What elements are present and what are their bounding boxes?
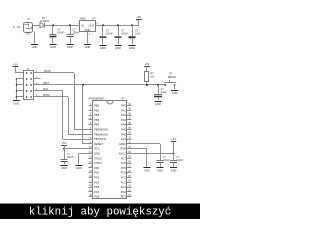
svg-text:PB1: PB1 — [94, 108, 100, 112]
svg-text:PD5: PD5 — [94, 190, 100, 194]
svg-text:1N4001: 1N4001 — [40, 19, 50, 23]
svg-text:GND: GND — [100, 46, 106, 50]
svg-text:PB0: PB0 — [94, 104, 100, 108]
svg-text:GND: GND — [76, 166, 82, 170]
svg-text:PB7(SCK): PB7(SCK) — [94, 137, 107, 141]
svg-text:PA3: PA3 — [121, 118, 126, 122]
svg-text:+5V: +5V — [136, 15, 141, 19]
svg-text:GND: GND — [32, 45, 38, 49]
svg-text:PB4: PB4 — [94, 123, 100, 127]
svg-text:GND: GND — [144, 168, 150, 172]
svg-text:PD1: PD1 — [94, 171, 100, 175]
svg-text:IN: IN — [81, 23, 84, 27]
svg-text:PB2: PB2 — [94, 113, 100, 117]
svg-text:PA4: PA4 — [121, 123, 126, 127]
svg-text:PC4: PC4 — [121, 171, 127, 175]
svg-text:XTAL2: XTAL2 — [94, 156, 103, 160]
svg-text:PA6: PA6 — [121, 132, 126, 136]
svg-text:100nF: 100nF — [121, 32, 128, 35]
svg-text:kliknij aby powiększyć: kliknij aby powiększyć — [29, 207, 172, 219]
svg-text:PB6(MISO): PB6(MISO) — [94, 132, 108, 136]
svg-text:DC: DC — [27, 32, 31, 36]
svg-text:GND: GND — [85, 45, 91, 49]
svg-text:GND: GND — [85, 28, 91, 32]
svg-text:+5V: +5V — [62, 141, 67, 145]
svg-text:GND: GND — [172, 91, 178, 95]
svg-text:10uF: 10uF — [135, 32, 141, 35]
svg-text:PC2: PC2 — [121, 180, 127, 184]
svg-text:100nF: 100nF — [163, 159, 170, 162]
svg-text:PD3: PD3 — [94, 180, 100, 184]
svg-text:PD6: PD6 — [94, 195, 100, 199]
svg-text:PC1: PC1 — [121, 185, 127, 189]
svg-text:PB5(MOSI): PB5(MOSI) — [94, 128, 108, 132]
svg-text:PC6: PC6 — [121, 161, 127, 165]
svg-text:100nF: 100nF — [176, 159, 183, 162]
svg-text:6 - 9V: 6 - 9V — [14, 25, 21, 29]
svg-text:100nF: 100nF — [67, 156, 74, 159]
svg-text:GND: GND — [14, 102, 20, 106]
svg-text:GND: GND — [171, 168, 177, 172]
svg-text:PA0: PA0 — [121, 104, 126, 108]
svg-text:GND: GND — [50, 45, 56, 49]
svg-text:+5V: +5V — [13, 62, 18, 66]
svg-text:7805: 7805 — [80, 16, 86, 20]
svg-text:PC5: PC5 — [121, 166, 127, 170]
svg-text:PA2: PA2 — [121, 113, 126, 117]
svg-text:PC0: PC0 — [121, 190, 127, 194]
svg-text:GND: GND — [120, 147, 126, 151]
svg-text:GND: GND — [67, 45, 73, 49]
svg-text:PC3: PC3 — [121, 176, 127, 180]
svg-text:RESET: RESET — [94, 142, 103, 146]
svg-text:GND: GND — [94, 152, 100, 156]
svg-text:GND: GND — [129, 46, 135, 50]
svg-text:GND: GND — [155, 102, 161, 106]
svg-text:PC7: PC7 — [121, 156, 127, 160]
svg-text:RESET: RESET — [168, 76, 177, 79]
svg-text:PA5: PA5 — [121, 128, 126, 132]
svg-text:+5V: +5V — [171, 137, 176, 141]
svg-text:PA1: PA1 — [121, 108, 126, 112]
svg-text:PD0: PD0 — [94, 166, 100, 170]
svg-text:GND: GND — [115, 46, 121, 50]
svg-text:100nF: 100nF — [106, 32, 113, 35]
svg-text:VCC: VCC — [94, 147, 100, 151]
svg-text:100uF: 100uF — [57, 31, 64, 34]
svg-text:PD4: PD4 — [94, 185, 100, 189]
svg-text:AVCC: AVCC — [119, 152, 126, 156]
svg-text:+5V: +5V — [145, 62, 150, 66]
svg-text:2.2uF: 2.2uF — [161, 91, 168, 94]
svg-text:PA7: PA7 — [121, 137, 126, 141]
svg-text:PB3: PB3 — [94, 118, 100, 122]
svg-text:GND: GND — [61, 166, 67, 170]
svg-text:PD7: PD7 — [121, 195, 127, 199]
svg-text:PD2: PD2 — [94, 176, 100, 180]
svg-text:100nF: 100nF — [73, 31, 80, 34]
svg-text:AREF: AREF — [119, 142, 127, 146]
svg-text:GND: GND — [157, 168, 163, 172]
svg-text:U?: U? — [92, 16, 96, 20]
svg-text:OUT: OUT — [89, 23, 95, 27]
svg-text:XTAL1: XTAL1 — [94, 161, 103, 165]
